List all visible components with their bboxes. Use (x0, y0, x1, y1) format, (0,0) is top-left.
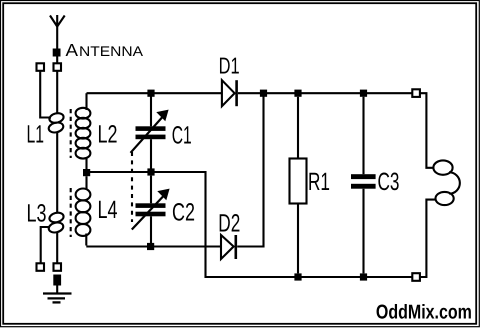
terminal P1 top right (412, 89, 420, 97)
wire D2 cathode to top rail (237, 93, 263, 246)
capacitor C1 (131, 93, 169, 168)
junction R1 bottom (294, 273, 301, 280)
wire detector row (86, 245, 221, 247)
inductor L2 (76, 93, 91, 169)
junction C3 top (360, 90, 367, 97)
svg-text:L4: L4 (98, 196, 118, 224)
svg-text:C1: C1 (172, 121, 192, 149)
headphones (420, 93, 460, 277)
core L1 L2 (70, 109, 72, 158)
diode D2 (221, 235, 236, 259)
terminal A2 (54, 63, 62, 71)
gang link dashed (131, 152, 133, 222)
wire L1 to L3 (56, 132, 58, 213)
terminal A1 (37, 63, 45, 71)
svg-text:D1: D1 (219, 53, 240, 79)
inductor L1 (48, 112, 65, 134)
svg-text:A: A (66, 40, 79, 60)
wire left post down to L1 top (40, 71, 51, 118)
svg-text:C3: C3 (378, 168, 400, 196)
wire top rail right of D1 (238, 92, 412, 94)
terminal G2 (54, 263, 62, 271)
junction C1 top rail (147, 90, 154, 97)
antenna terminal block (53, 49, 61, 57)
antenna (50, 15, 65, 49)
junction D2 riser top rail (260, 90, 267, 97)
core L3 L4 (70, 188, 72, 237)
svg-text:D2: D2 (218, 210, 240, 238)
junction R1 top (294, 90, 301, 97)
svg-text:NTENNA: NTENNA (79, 43, 144, 59)
terminal P2 bottom right (412, 273, 420, 281)
svg-text:L1: L1 (27, 121, 45, 149)
svg-text:C2: C2 (172, 199, 195, 227)
wire mid rail to bottom rail (87, 172, 413, 277)
wire L3 bottom to post (56, 233, 58, 263)
wire right post down into L1 (56, 71, 58, 113)
capacitor C2 (132, 176, 170, 243)
ground (43, 294, 72, 303)
terminal G1 (37, 263, 45, 271)
junction C1 mid rail (147, 168, 154, 175)
junction C3 bottom (360, 273, 367, 280)
inductor L3 (48, 211, 65, 234)
capacitor C3 (351, 97, 376, 274)
wire block to ground (56, 286, 58, 293)
wire L3 tap to ground post (41, 227, 50, 263)
ANTENNA label (66, 40, 144, 60)
svg-text:R1: R1 (308, 168, 330, 196)
wire mast to terminal (56, 57, 58, 64)
junction C2 detector row (147, 243, 154, 250)
svg-text:L3: L3 (27, 200, 47, 228)
svg-text:L2: L2 (98, 121, 118, 149)
junction L2 L4 (83, 169, 90, 176)
resistor R1 (290, 97, 307, 274)
svg-text:OddMix.com: OddMix.com (376, 302, 472, 324)
inductor L4 (76, 176, 91, 245)
wire top rail left (87, 92, 222, 94)
diode D1 (222, 80, 237, 106)
ground terminal block (53, 275, 61, 286)
